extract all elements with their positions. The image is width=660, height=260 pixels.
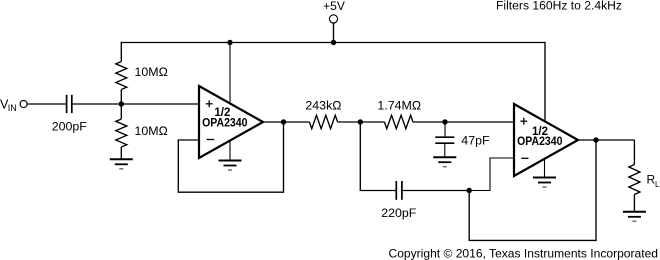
svg-text:L: L (655, 180, 660, 189)
wire C2 to node D (403, 190, 469, 192)
junction dot rail to U1 supply (227, 40, 232, 45)
junction dot U2 output (593, 137, 598, 142)
capacitor C1 200pF (67, 95, 72, 113)
capacitor C2 220pF (396, 181, 402, 200)
wire rail down to U2 supply pin (544, 42, 546, 122)
resistor R3 243k (309, 115, 337, 128)
wire U1 output to R3 (263, 121, 309, 123)
resistor R2 10M (lower) (116, 119, 127, 147)
svg-text:OPA2340: OPA2340 (517, 136, 562, 148)
node A junction dot (119, 101, 124, 106)
wire rail corner down to R1 (120, 42, 122, 62)
svg-text:243kΩ: 243kΩ (305, 99, 341, 113)
wire R1 to node A (120, 90, 122, 105)
op-amp U1 1/2 OPA2340 triangle (199, 86, 263, 158)
ground below U1 (219, 161, 242, 171)
resistor R1 10M (upper) (116, 62, 127, 90)
wire R2 to ground (120, 147, 122, 159)
svg-text:+5V: +5V (323, 0, 345, 13)
svg-text:OPA2340: OPA2340 (202, 118, 247, 130)
svg-text:200pF: 200pF (52, 119, 88, 133)
svg-text:10MΩ: 10MΩ (135, 124, 169, 138)
U1 plus input symbol (206, 100, 213, 107)
junction dot node C (R4/C3) (442, 119, 447, 124)
svg-text:1.74MΩ: 1.74MΩ (377, 99, 421, 113)
U2 ground pin wire (544, 159, 546, 178)
wire down to RL (633, 140, 635, 165)
input terminal VIN (20, 100, 27, 107)
wire node D to U2 -input (469, 158, 514, 191)
ground below R2 (110, 159, 133, 169)
wire +5V terminal to rail (333, 23, 335, 42)
U1 minus input symbol (207, 139, 215, 141)
svg-text:Copyright © 2016, Texas Instru: Copyright © 2016, Texas Instruments Inco… (389, 246, 659, 260)
svg-text:Filters 160Hz to 2.4kHz: Filters 160Hz to 2.4kHz (496, 0, 622, 13)
svg-text:220pF: 220pF (381, 206, 417, 220)
wire node B down to C2 (360, 122, 395, 191)
svg-text:10MΩ: 10MΩ (135, 65, 169, 79)
resistor RL (629, 165, 640, 195)
wire node A down to R2 (120, 104, 122, 119)
op-amp U2 1/2 OPA2340 triangle (514, 104, 578, 176)
wire node D to U2 output (bottom feedback) (469, 141, 596, 240)
svg-text:IN: IN (8, 103, 17, 113)
wire U2 output to RL (578, 139, 634, 141)
ground below RL (623, 212, 646, 222)
junction dot U1 output (281, 119, 286, 124)
wire R3 to R4 (338, 121, 385, 123)
junction dot node B (R3/R4/C2) (358, 119, 363, 124)
svg-text:47pF: 47pF (461, 133, 490, 147)
ground below U2 (533, 178, 556, 188)
junction dot node D (467, 188, 472, 193)
wire RL to ground (633, 195, 635, 212)
wire C3 to ground (444, 144, 446, 157)
+5V terminal circle (329, 15, 337, 23)
U1 supply pin wire (229, 43, 231, 105)
wire node C down to C3 (444, 122, 446, 136)
+5V supply rail (121, 42, 545, 44)
wire C1 to opamp U1 +input (73, 103, 199, 105)
U2 minus input symbol (521, 157, 528, 159)
resistor R4 1.74M (384, 115, 413, 128)
wire R4 to U2 +input (413, 121, 514, 123)
junction dot +5V on rail (331, 40, 336, 45)
U1 feedback loop wire (output to -input) (178, 123, 283, 192)
capacitor C3 47pF (435, 137, 454, 143)
U2 plus input symbol (520, 118, 527, 125)
ground below C3 (433, 157, 456, 167)
wire VIN to C1 (27, 103, 66, 105)
U1 ground pin wire (229, 141, 231, 161)
